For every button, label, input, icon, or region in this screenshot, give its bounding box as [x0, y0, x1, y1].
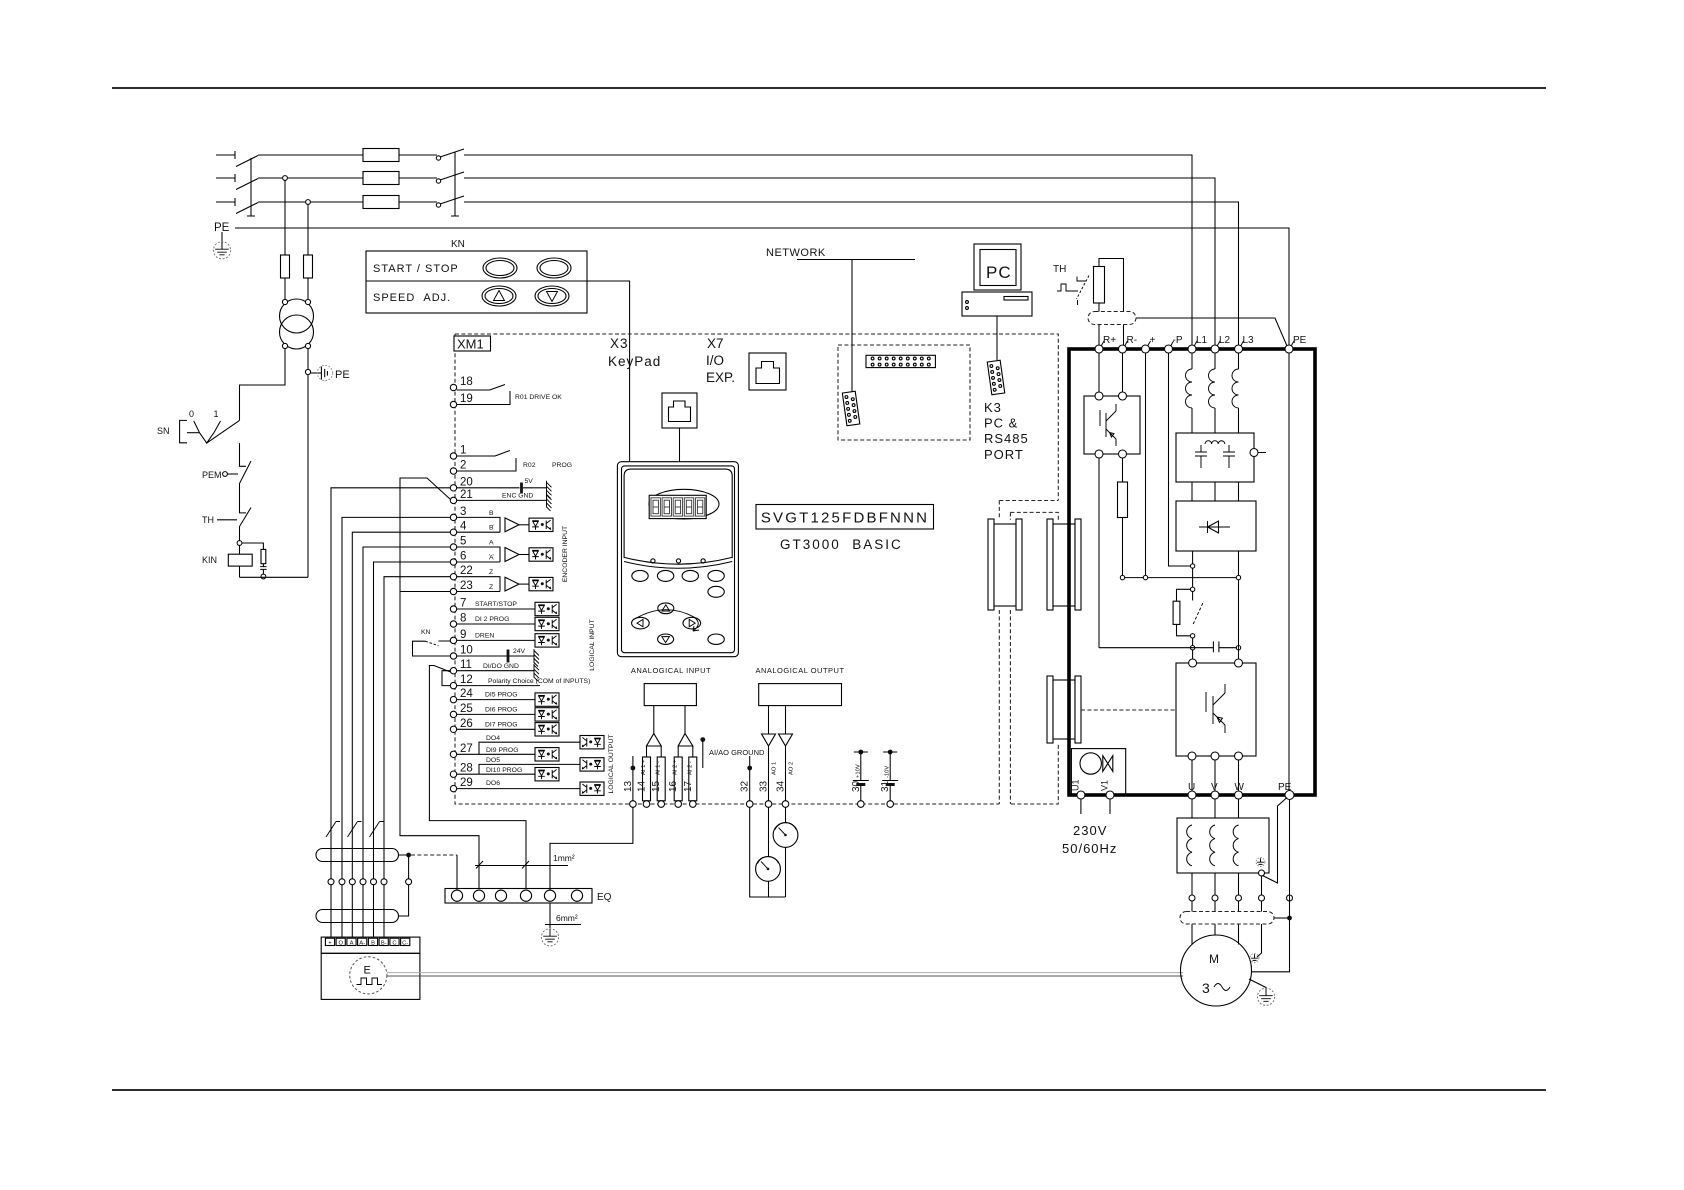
svg-text:DI/DO GND: DI/DO GND	[483, 663, 519, 670]
svg-text:30: 30	[851, 780, 862, 792]
terminal on XM1 bottom	[690, 801, 697, 808]
terminal XM1-10	[450, 653, 456, 659]
wire phase L1 input stub	[216, 151, 235, 159]
inductor output choke	[1187, 825, 1192, 866]
svg-text:7: 7	[460, 598, 466, 610]
terminal XM1-3	[450, 514, 456, 520]
wire braking loop	[1099, 259, 1124, 346]
wires inverter outputs	[1192, 760, 1239, 791]
svg-text:3: 3	[1202, 980, 1210, 996]
optocoupler B	[529, 518, 553, 531]
terminal on XM1 bottom	[858, 801, 865, 808]
svg-text:AO 2: AO 2	[789, 762, 795, 775]
svg-text:1: 1	[460, 445, 466, 457]
svg-text:PE: PE	[1293, 335, 1307, 346]
terminal on XM1 bottom	[630, 801, 637, 808]
connector DB9 internal	[842, 391, 859, 425]
wire terminal 6	[374, 562, 451, 938]
keypad enter button	[708, 634, 724, 644]
node snubber bottom	[261, 574, 266, 579]
terminal row under oval	[328, 879, 334, 885]
svg-text:B-: B-	[381, 941, 387, 947]
terminal XM1-18	[450, 384, 456, 390]
svg-text:SPEED ADJ.: SPEED ADJ.	[373, 292, 451, 304]
terminal XM1-11	[450, 668, 456, 674]
svg-text:DI5 PROG: DI5 PROG	[485, 692, 517, 699]
svg-text:10: 10	[460, 645, 473, 657]
disconnect switch linkage	[247, 158, 255, 216]
svg-text:28: 28	[460, 763, 473, 775]
svg-text:3: 3	[460, 506, 466, 518]
svg-text:5V: 5V	[525, 478, 534, 485]
relay contact R02 PROG (terminals 1/2)	[457, 451, 516, 472]
svg-text:R01 DRIVE OK: R01 DRIVE OK	[515, 394, 562, 401]
svg-text:DI7 PROG: DI7 PROG	[485, 721, 517, 728]
svg-text:AI/AO GROUND: AI/AO GROUND	[709, 748, 765, 757]
wire terminal 5	[363, 547, 450, 938]
wire terminal 20 to encoder cable	[331, 488, 450, 938]
terminal on XM1 bottom	[765, 801, 772, 808]
svg-text:V1: V1	[1100, 780, 1110, 791]
svg-text:X3: X3	[610, 336, 629, 351]
capacitor filter 1	[1195, 445, 1207, 468]
terminal XM1-20	[450, 485, 456, 491]
choke output block	[1177, 818, 1269, 873]
connector board C3	[1047, 676, 1081, 743]
terminal XM1-19	[450, 401, 456, 407]
svg-text:AI 2 +: AI 2 +	[673, 759, 679, 775]
logical input DI10 (terminal 28)	[457, 773, 535, 775]
supply terminal 30 (+10V)	[858, 750, 863, 755]
connector board C1	[988, 519, 1022, 610]
svg-text:PC: PC	[986, 263, 1012, 282]
logical input DI9 (terminal 27)	[457, 753, 535, 755]
wire phase L3 run to drive	[464, 202, 1239, 345]
svg-text:EQ: EQ	[597, 892, 612, 903]
wire phase L2 input stub	[216, 174, 235, 182]
terminal XM1-2	[450, 468, 456, 474]
keypad swoosh arc	[633, 610, 694, 620]
svg-text:-P: -P	[1173, 335, 1183, 346]
connector header 2x10	[866, 355, 935, 367]
svg-text:X7: X7	[707, 336, 724, 351]
PE mark on secondary	[311, 372, 321, 374]
contactor KN linkage	[451, 152, 459, 216]
plug analog input	[643, 757, 651, 801]
svg-text:B: B	[371, 941, 375, 947]
relay contact R01 DRIVE OK (terminals 18/19)	[457, 385, 510, 405]
coil KIN	[239, 545, 241, 554]
svg-text:23: 23	[460, 580, 473, 592]
contact precharge bypass	[1193, 601, 1204, 624]
logical input terminal (DI7 PROG)	[457, 728, 535, 730]
wire KN panel to X3	[587, 281, 630, 462]
wire terminal 32	[749, 756, 751, 801]
connector board C2	[1047, 519, 1081, 610]
svg-text:+: +	[1150, 335, 1156, 346]
terminal V1	[1106, 791, 1114, 799]
wire braking shield to PE	[1136, 318, 1287, 346]
contactor KN pole 1	[436, 156, 440, 160]
terminal XM1-21	[450, 497, 456, 503]
terminal 21 ENC GND	[457, 499, 547, 501]
contact KN auxiliary (9 to 10)	[413, 641, 451, 656]
svg-text:2: 2	[460, 460, 466, 472]
svg-text:GT3000 BASIC: GT3000 BASIC	[780, 537, 903, 552]
svg-text:11: 11	[460, 659, 472, 671]
svg-text:LOGICAL INPUT: LOGICAL INPUT	[589, 619, 596, 671]
wire RJ45 to keypad	[679, 428, 681, 462]
terminal strip encoder	[321, 937, 420, 953]
shield drain node	[406, 853, 411, 858]
svg-text:50/60Hz: 50/60Hz	[1062, 841, 1117, 856]
terminal XM1-9	[450, 637, 456, 643]
terminal XM1-23	[450, 588, 456, 594]
wire terminal 11 to EQ bar	[429, 666, 526, 889]
wire terminal 21 ENC GND to shield	[400, 478, 479, 889]
svg-text:SVGT125FDBFNNN: SVGT125FDBFNNN	[761, 510, 929, 527]
wire shield drain to EQ (dashed)	[411, 854, 457, 856]
svg-text:PC &: PC &	[984, 416, 1018, 431]
wire phase L3 to fuse	[258, 201, 363, 203]
shield oval encoder upper	[316, 849, 399, 862]
connector RJ45 X7	[749, 353, 786, 390]
wire terminal 4	[352, 532, 450, 937]
svg-text:ANALOGICAL INPUT: ANALOGICAL INPUT	[631, 666, 711, 675]
fuse F5	[304, 255, 313, 278]
svg-text:DI10 PROG: DI10 PROG	[486, 767, 522, 774]
terminal on XM1 bottom	[746, 801, 753, 808]
svg-text:DI6 PROG: DI6 PROG	[485, 706, 517, 713]
twisted pair marks	[326, 822, 340, 838]
svg-text:4: 4	[460, 521, 467, 533]
inductor output choke	[1210, 825, 1215, 866]
svg-text:25: 25	[460, 703, 473, 715]
chopper IGBT module	[1099, 353, 1123, 392]
svg-text:230V: 230V	[1073, 823, 1107, 838]
keypad LEDs	[651, 559, 655, 563]
terminal on XM1 bottom	[887, 801, 894, 808]
svg-text:ENCODER INPUT: ENCODER INPUT	[562, 526, 569, 582]
keypad 7-segment display	[649, 495, 706, 518]
resistor brake internal	[1118, 482, 1128, 518]
svg-text:DREN: DREN	[475, 632, 494, 639]
svg-text:M: M	[1209, 952, 1219, 966]
keypad buttons row1	[632, 570, 648, 581]
svg-text:TH: TH	[202, 515, 214, 525]
node phase L2 tap	[283, 176, 288, 181]
amplifier AO2	[779, 734, 793, 746]
shield oval braking cable	[1088, 312, 1136, 325]
terminal XM1-28	[450, 771, 456, 777]
wire terminal 23	[400, 591, 450, 593]
svg-text:DI9 PROG: DI9 PROG	[486, 747, 518, 754]
svg-text:A: A	[350, 941, 354, 947]
transformer T1	[280, 299, 314, 333]
wire + bus	[1123, 353, 1239, 578]
svg-text:9: 9	[460, 629, 466, 641]
wire terminal 22	[384, 577, 450, 938]
keypad arrow right button	[683, 617, 701, 629]
amplifier A	[505, 548, 519, 562]
svg-text:0: 0	[189, 409, 194, 419]
wire choke PE to terminal PE	[1263, 798, 1288, 884]
svg-text:NETWORK: NETWORK	[766, 247, 826, 259]
svg-text:I/O: I/O	[706, 353, 724, 368]
svg-text:KN: KN	[451, 239, 465, 250]
fuse F3	[363, 196, 399, 209]
wire PE bus vertical	[1288, 353, 1290, 791]
terminals before motor cable	[1189, 895, 1195, 901]
svg-text:RS485: RS485	[984, 431, 1029, 446]
keypad arrow left button	[632, 617, 650, 629]
svg-text:L3: L3	[1243, 335, 1255, 346]
resistor R snubber	[242, 543, 264, 549]
wire chopper R+ down	[1098, 458, 1100, 648]
fan auxiliary supply box	[1071, 749, 1125, 795]
wire 32 down	[750, 807, 786, 897]
label plate SVGT125FDBFNNN	[756, 505, 934, 530]
svg-text:16: 16	[668, 780, 679, 792]
PE mark motor	[1250, 954, 1259, 963]
node PE tap on secondary	[305, 369, 310, 374]
wire AO1	[768, 706, 770, 734]
wires U V W to choke	[1192, 799, 1239, 818]
terminal U1	[1077, 791, 1085, 799]
ground AI/AO	[700, 737, 705, 742]
wire tap L2 down	[284, 180, 286, 255]
svg-text:15: 15	[651, 780, 662, 792]
svg-text:SN: SN	[157, 426, 170, 436]
terminal XM1-27	[450, 751, 456, 757]
logical input terminal (DI5 PROG)	[457, 699, 535, 701]
terminal PE output	[1285, 791, 1294, 800]
disconnect switch blade phase 2	[236, 179, 258, 190]
svg-text:20: 20	[460, 476, 473, 488]
wire -P bus	[1169, 353, 1191, 566]
svg-text:EXP.: EXP.	[706, 370, 735, 385]
wire transformer right secondary	[307, 348, 309, 577]
svg-text:-10V: -10V	[885, 766, 891, 778]
node phase L3 tap	[306, 200, 311, 205]
wires 230V supply	[1081, 799, 1110, 814]
svg-text:E: E	[364, 965, 371, 977]
plug analog input	[689, 757, 697, 801]
svg-text:K3: K3	[984, 400, 1002, 415]
wires choke to motor	[1192, 873, 1239, 945]
svg-text:START / STOP: START / STOP	[373, 263, 459, 275]
svg-text:R02: R02	[523, 462, 536, 469]
bar EQ	[445, 889, 592, 904]
wire phase L2 run to drive	[464, 178, 1215, 345]
dashed control to inverter	[1081, 709, 1176, 711]
button speed up	[482, 286, 516, 306]
wire analog input pin	[692, 746, 694, 801]
filter ground terminal	[1250, 449, 1258, 457]
svg-text:AI 1 -: AI 1 -	[656, 761, 662, 775]
terminal choke PE	[1259, 870, 1265, 876]
disconnect switch blade phase 1	[236, 156, 258, 167]
encoder input B (terminals)	[457, 517, 500, 532]
terminal on XM1 bottom	[658, 801, 665, 808]
optocoupler A	[529, 548, 553, 561]
inductor line choke	[1191, 353, 1193, 369]
svg-text:26: 26	[460, 718, 473, 730]
svg-text:U1: U1	[1071, 779, 1081, 791]
resistor precharge	[1173, 601, 1180, 624]
inverter IGBT module	[1176, 663, 1256, 756]
svg-text:PEM: PEM	[202, 470, 222, 480]
plug analog input	[674, 757, 682, 801]
terminal on XM1 bottom	[643, 801, 650, 808]
terminal on XM1 bottom	[675, 801, 682, 808]
terminal XM1-7	[450, 606, 456, 612]
svg-text:KeyPad: KeyPad	[608, 354, 661, 369]
svg-text:1mm²: 1mm²	[553, 853, 575, 863]
rectifier block	[1176, 501, 1256, 551]
svg-text:22: 22	[460, 565, 473, 577]
logical input terminal (DI 2 PROG)	[457, 623, 535, 625]
svg-text:32: 32	[740, 780, 751, 792]
svg-text:19: 19	[460, 393, 473, 405]
wire phase L3 input stub	[216, 198, 235, 206]
encoder input Z (terminals)	[457, 577, 500, 592]
svg-text:PE: PE	[335, 369, 350, 381]
wire choke PE down	[1257, 876, 1262, 957]
contactor KN pole 2	[436, 179, 440, 183]
wire phase L1 run to drive	[464, 155, 1192, 345]
pushbutton PEM (NC)	[240, 443, 247, 466]
wire tap L3 down	[307, 204, 309, 255]
keypad button row2	[708, 586, 724, 597]
logical input terminal (DREN)	[457, 639, 535, 641]
optocoupler Z	[529, 577, 553, 590]
svg-text:C: C	[392, 941, 396, 947]
svg-text:L1: L1	[1196, 335, 1208, 346]
svg-text:B: B	[489, 525, 494, 532]
svg-text:START/STOP: START/STOP	[475, 601, 517, 608]
svg-text:KN: KN	[421, 629, 431, 636]
svg-text:33: 33	[759, 780, 770, 792]
fuse F1	[363, 149, 399, 162]
wire PE to motor	[1289, 800, 1291, 969]
terminal 11 DI/DO GND	[457, 670, 534, 672]
svg-text:DO5: DO5	[486, 757, 500, 764]
keypad X3 body	[617, 462, 738, 657]
svg-text:13: 13	[623, 780, 634, 792]
wire phase L3 to contactor	[399, 201, 437, 203]
meter on AO1	[768, 807, 770, 897]
terminal XM1-26	[450, 726, 456, 732]
encoder input A (terminals)	[457, 547, 500, 562]
svg-text:KIN: KIN	[202, 555, 217, 565]
keypad arrow up button	[658, 603, 674, 614]
svg-text:TH: TH	[1053, 264, 1066, 275]
svg-text:B: B	[489, 510, 494, 517]
svg-text:DI 2 PROG: DI 2 PROG	[475, 616, 509, 623]
capacitor C snubber	[260, 564, 266, 574]
svg-text:6mm²: 6mm²	[556, 913, 578, 923]
amplifier Z	[505, 577, 519, 591]
label box XM1	[454, 336, 491, 351]
svg-text:R-: R-	[1127, 335, 1138, 346]
wire analog input pin	[677, 746, 679, 801]
svg-text:AI 1 +: AI 1 +	[641, 759, 647, 775]
svg-text:Z: Z	[489, 584, 493, 591]
inductor output choke	[1233, 825, 1238, 866]
supply terminal 31 (-10V)	[888, 750, 893, 755]
terminal XM1-29	[450, 785, 456, 791]
wire phase L2 to fuse	[258, 177, 363, 179]
wire phase L1 to contactor	[399, 154, 437, 156]
wire chopper R- to brake resistor	[1122, 458, 1124, 482]
svg-text:L2: L2	[1219, 335, 1231, 346]
wires filter to rectifier	[1192, 482, 1239, 501]
logical input terminal (START/STOP)	[457, 608, 535, 610]
svg-text:1: 1	[214, 409, 219, 419]
amplifier AI2	[678, 734, 693, 747]
wire transformer left secondary	[240, 348, 286, 420]
svg-text:27: 27	[460, 743, 473, 755]
keypad face plate	[624, 469, 732, 564]
terminal XM1-12	[450, 682, 456, 688]
svg-text:14: 14	[637, 780, 648, 792]
button start	[483, 258, 517, 278]
terminal XM1-5	[450, 544, 456, 550]
terminal 12 polarity choice jumper	[457, 685, 540, 687]
diode symbol	[1208, 521, 1219, 533]
svg-text:XM1: XM1	[457, 337, 484, 352]
capacitor filter 2	[1223, 445, 1235, 468]
amplifier B	[505, 518, 519, 532]
supply 24V terminal 10	[457, 655, 534, 657]
shield oval motor cable	[1180, 912, 1274, 925]
svg-text:Z: Z	[489, 569, 493, 576]
wire EQ to earth	[549, 903, 551, 928]
amplifier AI1	[647, 734, 662, 747]
precharge circuit	[1192, 568, 1194, 587]
wire phase L2 to contactor	[399, 177, 437, 179]
wire terminal 3	[342, 517, 450, 937]
amplifier AO1	[762, 734, 776, 746]
block analog input	[644, 684, 696, 706]
IGBT symbol chopper	[1100, 404, 1116, 446]
svg-text:6: 6	[460, 551, 466, 563]
terminal on XM1 bottom	[782, 801, 789, 808]
terminal XM1-4	[450, 529, 456, 535]
svg-text:A: A	[489, 540, 494, 547]
svg-text:29: 29	[460, 777, 473, 789]
button stop	[537, 258, 571, 278]
ground earth motor	[1249, 979, 1266, 989]
wire AI2 stem	[684, 706, 686, 734]
svg-text:ENC GND: ENC GND	[502, 493, 533, 500]
computer PC icon	[974, 244, 1021, 290]
wire network drop	[851, 260, 853, 393]
wire analog input pin	[660, 746, 662, 801]
connector DB9 K3 port	[987, 360, 1004, 394]
terminal XM1-22	[450, 574, 456, 580]
svg-text:Polarity Choice (COM of INPUTS: Polarity Choice (COM of INPUTS)	[488, 678, 590, 685]
power unit thick frame	[1069, 349, 1315, 795]
encoder E block	[321, 953, 420, 999]
terminal block XM1 dashed border	[455, 334, 1058, 804]
terminal XM1-6	[450, 559, 456, 565]
svg-text:C-: C-	[402, 941, 408, 947]
keypad arrow down button	[658, 634, 674, 644]
thermal contact TH (NC)	[240, 508, 252, 527]
svg-text:DO4: DO4	[486, 735, 500, 742]
